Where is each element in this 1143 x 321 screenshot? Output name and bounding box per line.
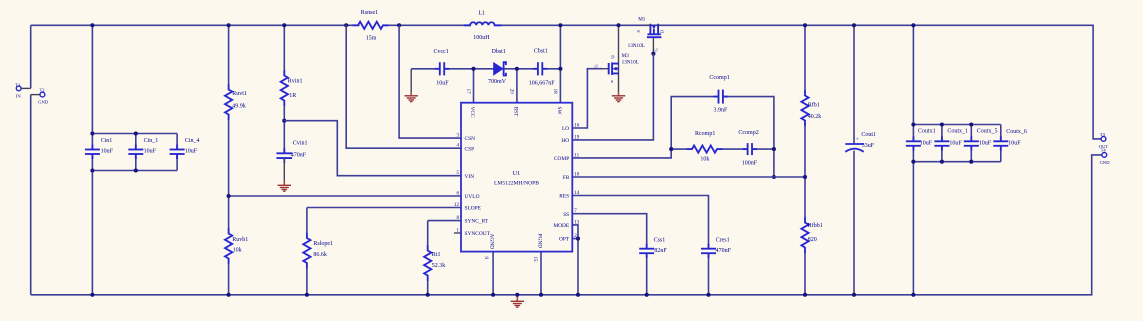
svg-text:SYNC_RT: SYNC_RT — [465, 219, 489, 225]
wire Coutx_5 branch — [970, 125, 972, 162]
junction bottom rail Coutx — [911, 293, 915, 297]
junction VCC — [471, 67, 475, 71]
wire SLOPE pin 12 branch — [307, 208, 461, 295]
svg-text:SS: SS — [563, 212, 569, 218]
svg-text:Ccomp2: Ccomp2 — [738, 130, 758, 136]
svg-text:Coutx_1: Coutx_1 — [947, 128, 968, 134]
junction bottom rail Cin — [90, 293, 94, 297]
svg-text:52.3k: 52.3k — [432, 263, 446, 269]
svg-text:VCC: VCC — [469, 107, 475, 118]
svg-text:CSP: CSP — [465, 146, 475, 152]
svg-text:13: 13 — [574, 220, 580, 225]
junction comp-FB — [772, 175, 776, 179]
wire Cin bank bottom — [92, 170, 177, 172]
svg-text:1R: 1R — [289, 93, 296, 99]
svg-text:15m: 15m — [366, 36, 377, 42]
svg-text:L1: L1 — [478, 11, 485, 17]
svg-text:M1: M1 — [638, 16, 646, 22]
junction top rail Rfb1 — [803, 23, 807, 27]
capacitor Coutx1 — [906, 136, 921, 151]
wire VCC-BST-SW row — [411, 68, 560, 70]
junction CSN node — [397, 23, 401, 27]
wire Cin_1 branch — [135, 134, 137, 171]
wire Coutx_1 branch — [941, 125, 943, 162]
wire BST pin 20 — [516, 69, 518, 103]
svg-text:16: 16 — [574, 123, 580, 128]
svg-text:D: D — [611, 54, 614, 59]
ground main — [511, 295, 524, 307]
resistor Ruvb1 — [225, 228, 232, 264]
terminal T4 GND — [1102, 153, 1107, 158]
resistor Rcomp1 — [687, 146, 723, 153]
svg-text:FB: FB — [563, 175, 570, 181]
junction — [940, 122, 944, 126]
junction — [134, 131, 138, 135]
svg-text:T2: T2 — [40, 87, 46, 92]
svg-text:700mV: 700mV — [488, 79, 507, 85]
resistor Rsnse1 — [353, 22, 389, 29]
svg-text:Rfb1: Rfb1 — [808, 102, 820, 109]
svg-text:49.9k: 49.9k — [232, 103, 246, 109]
wire RES pin 14 to Cres1 — [572, 196, 708, 295]
svg-text:19: 19 — [574, 135, 580, 140]
svg-text:LO: LO — [562, 126, 569, 132]
resistor Rvin1 — [281, 70, 288, 106]
wire T2 stub — [31, 94, 40, 96]
wire LO pin 16 to M3 gate — [572, 69, 602, 128]
svg-text:Rfbb1: Rfbb1 — [808, 222, 823, 229]
svg-text:13N10L: 13N10L — [628, 43, 645, 49]
junction bottom Rslope1 — [305, 293, 309, 297]
wire Cin bank top — [92, 133, 177, 135]
svg-text:Css1: Css1 — [654, 237, 666, 243]
svg-text:SLOPE: SLOPE — [465, 206, 482, 212]
svg-text:10uF: 10uF — [920, 141, 933, 147]
ground Cvin1 — [278, 181, 291, 191]
junction UVLO node — [227, 194, 231, 198]
svg-text:LM5122MH/NOPB: LM5122MH/NOPB — [494, 181, 539, 187]
op-amp U1 LM5122 controller — [461, 103, 572, 252]
svg-text:3.9nF: 3.9nF — [714, 108, 729, 114]
terminal T3 OUT — [1101, 137, 1106, 142]
svg-text:10k: 10k — [700, 157, 709, 163]
capacitor Cbst1 — [533, 62, 547, 75]
svg-text:SYNCOUT: SYNCOUT — [465, 231, 491, 237]
svg-text:GND: GND — [38, 100, 49, 105]
svg-text:106,667nF: 106,667nF — [529, 80, 556, 86]
svg-text:17: 17 — [465, 89, 470, 95]
wire UVLO to pin 6 — [229, 195, 461, 197]
junction top rail Ruvt1 — [227, 23, 231, 27]
capacitor Coutx_5 — [964, 136, 979, 151]
junction bottom Css1 — [645, 293, 649, 297]
inductor L1 — [464, 22, 502, 25]
svg-text:11: 11 — [574, 153, 579, 158]
wire Coutx1 branch — [912, 25, 914, 295]
svg-text:T3: T3 — [1100, 132, 1106, 137]
svg-text:14: 14 — [574, 191, 580, 196]
capacitor Coutx_6 — [993, 136, 1008, 151]
svg-text:10uF: 10uF — [1008, 141, 1021, 147]
svg-text:VIN: VIN — [465, 174, 475, 180]
svg-text:470nF: 470nF — [716, 248, 732, 254]
svg-text:Cin_1: Cin_1 — [144, 138, 159, 144]
capacitor Cin1 — [85, 145, 100, 160]
wire feedback divider branch — [804, 25, 806, 295]
svg-text:Ruvb1: Ruvb1 — [232, 237, 248, 243]
junction — [940, 160, 944, 164]
svg-text:T1: T1 — [15, 83, 21, 88]
svg-text:Cbst1: Cbst1 — [534, 49, 548, 55]
diode Dbst1 — [493, 62, 506, 76]
wire Coutx bank top — [913, 124, 1000, 126]
junction FB node — [803, 175, 807, 179]
svg-text:Rt1: Rt1 — [432, 252, 441, 258]
junction — [911, 160, 915, 164]
svg-text:HO: HO — [561, 138, 569, 144]
svg-text:Cin_4: Cin_4 — [185, 138, 200, 144]
terminal T1 IN — [16, 86, 21, 91]
junction SW-Cbst — [558, 67, 562, 71]
svg-text:13N10L: 13N10L — [622, 60, 639, 66]
capacitor Css1 — [639, 244, 654, 259]
svg-text:BST: BST — [512, 107, 518, 118]
wire SW pin 18 — [559, 25, 561, 102]
svg-text:10uF: 10uF — [979, 141, 992, 147]
svg-text:MODE: MODE — [553, 223, 570, 229]
svg-text:40.2k: 40.2k — [808, 114, 822, 120]
wire SYNCOUT stub — [454, 232, 461, 234]
svg-text:Cvcc1: Cvcc1 — [434, 49, 449, 55]
junction MODE-OPT — [576, 237, 580, 241]
junction main ground — [515, 293, 519, 297]
resistor Rslope1 — [303, 233, 310, 269]
svg-text:U1: U1 — [513, 170, 521, 177]
wire Coutx_6 branch — [1000, 125, 1002, 162]
svg-text:12: 12 — [454, 203, 460, 208]
wire MODE-OPT to ground — [572, 225, 578, 295]
svg-text:Ccomp1: Ccomp1 — [709, 75, 729, 81]
junction AGND — [491, 293, 495, 297]
svg-text:Coutx_5: Coutx_5 — [977, 128, 998, 134]
wire SYNC_RT pin 8 branch — [428, 221, 461, 295]
wire VIN/SW/VOUT top rail — [31, 25, 1101, 139]
junction — [969, 160, 973, 164]
svg-text:SW: SW — [556, 107, 562, 116]
svg-text:10uF: 10uF — [101, 149, 114, 155]
svg-text:10uF: 10uF — [185, 149, 198, 155]
junction bottom rail Ruvb1 — [227, 293, 231, 297]
junction — [969, 122, 973, 126]
junction bottom Rt1 — [426, 293, 430, 297]
wire Rvin branch — [283, 25, 285, 153]
capacitor Coutx_1 — [934, 136, 949, 151]
svg-text:33uF: 33uF — [862, 143, 875, 149]
junction comp right — [772, 147, 776, 151]
wire GND bottom rail — [31, 155, 1102, 295]
svg-text:Cvin1: Cvin1 — [293, 141, 308, 147]
wire left input drop — [30, 25, 32, 295]
junction Cin top — [90, 131, 94, 135]
wire Cvin1 to ground — [283, 158, 285, 181]
ground M3 source — [612, 92, 625, 102]
wire PGND pin 15 — [540, 252, 542, 295]
capacitor Cout1 polarized — [845, 25, 863, 295]
transistor M3 low-side — [602, 25, 619, 91]
wire FB pin 10 — [572, 176, 805, 178]
svg-text:10k: 10k — [233, 248, 242, 254]
svg-text:Rcomp1: Rcomp1 — [695, 131, 715, 137]
junction top rail Cout1 — [852, 23, 856, 27]
svg-text:86.6k: 86.6k — [313, 252, 327, 258]
wire AGND pin 9 — [492, 252, 494, 295]
junction Cin bottom — [90, 168, 94, 172]
junction SW rail M3 — [616, 23, 620, 27]
svg-text:15: 15 — [532, 257, 537, 263]
svg-text:18: 18 — [552, 89, 557, 95]
wire Cin1 branch — [91, 25, 93, 295]
svg-text:+: + — [856, 137, 859, 143]
svg-text:Dbst1: Dbst1 — [492, 49, 506, 55]
wire SS pin 7 to Css1 — [572, 214, 646, 295]
capacitor Cvin1 — [276, 148, 292, 163]
junction top rail Rvin1 — [282, 23, 286, 27]
svg-text:OPT: OPT — [559, 237, 570, 243]
svg-text:RES: RES — [559, 194, 569, 200]
svg-text:M3: M3 — [622, 53, 630, 59]
transistor M1 high-side — [645, 24, 661, 54]
terminal T2 GND — [40, 92, 45, 97]
svg-text:Coutx1: Coutx1 — [918, 128, 936, 134]
wire HO pin 19 to M1 gate — [572, 54, 653, 140]
svg-text:COMP: COMP — [554, 156, 569, 162]
svg-text:Rsnse1: Rsnse1 — [361, 10, 378, 16]
wire UVLO divider branch — [228, 25, 230, 295]
junction BST — [515, 67, 519, 71]
resistor Rfbb1 — [801, 217, 808, 253]
svg-text:470nF: 470nF — [291, 152, 307, 158]
wire CSP to pin 4 — [346, 25, 461, 148]
resistor Ruvt1 — [225, 84, 232, 120]
junction top rail Coutx — [911, 23, 915, 27]
svg-text:Rvin1: Rvin1 — [288, 78, 303, 84]
svg-text:Ruvt1: Ruvt1 — [232, 91, 247, 97]
junction — [134, 168, 138, 172]
svg-text:UVLO: UVLO — [465, 194, 480, 200]
wire CSN to pin 3 — [399, 25, 461, 138]
capacitor Ccomp2 — [743, 143, 757, 155]
svg-text:Cin1: Cin1 — [101, 138, 113, 144]
svg-text:Coutx_6: Coutx_6 — [1006, 129, 1027, 135]
svg-text:Cout1: Cout1 — [861, 132, 876, 138]
svg-text:Rslope1: Rslope1 — [313, 241, 333, 247]
junction bottom OPT — [576, 293, 580, 297]
junction VIN filter node — [282, 119, 286, 123]
junction PGND — [539, 293, 543, 297]
wire Cin_4 branch — [176, 134, 178, 171]
junction SW rail — [558, 23, 562, 27]
wire comp RC branch — [671, 148, 774, 150]
svg-text:10uF: 10uF — [436, 81, 449, 87]
capacitor Ccomp1 — [714, 90, 728, 104]
svg-text:PGND: PGND — [537, 234, 543, 249]
svg-text:10uF: 10uF — [144, 149, 157, 155]
svg-text:100uH: 100uH — [473, 35, 490, 41]
capacitor Cin_1 — [128, 145, 143, 160]
wire COMP to Ccomp1 loop — [572, 97, 774, 177]
wire Cvcc1 ground drop — [410, 69, 412, 92]
junction M1 gate — [651, 52, 655, 56]
svg-text:D: D — [660, 30, 665, 33]
svg-text:GND: GND — [1100, 160, 1111, 165]
wire T1 stub — [21, 87, 31, 89]
svg-text:CSN: CSN — [465, 136, 476, 142]
resistor Rfb1 — [801, 90, 808, 126]
junction CSP node — [344, 23, 348, 27]
svg-text:AGND: AGND — [489, 234, 495, 250]
ground Cvcc1 — [405, 92, 418, 102]
svg-text:10uF: 10uF — [949, 141, 962, 147]
junction top rail Cin — [90, 23, 94, 27]
svg-text:820: 820 — [808, 237, 817, 243]
svg-text:20: 20 — [508, 89, 513, 95]
svg-text:Cres1: Cres1 — [716, 237, 730, 243]
svg-text:100nF: 100nF — [742, 161, 758, 167]
junction bottom rail Rfbb1 — [803, 293, 807, 297]
wire Coutx bank bottom — [913, 161, 1000, 163]
svg-text:T4: T4 — [1101, 147, 1107, 152]
resistor Rt1 — [424, 245, 431, 281]
junction comp left — [669, 147, 673, 151]
junction — [911, 122, 915, 126]
svg-text:10: 10 — [574, 172, 580, 177]
svg-text:IN: IN — [16, 94, 22, 99]
junction bottom rail Cout1 — [852, 293, 856, 297]
svg-text:82nF: 82nF — [654, 248, 667, 254]
wire VIN node to pin 5 — [284, 121, 461, 176]
junction bottom Cres1 — [706, 293, 710, 297]
capacitor Cres1 — [701, 244, 716, 259]
wire VCC pin 17 — [473, 69, 475, 103]
capacitor Cin_4 — [170, 145, 185, 160]
capacitor Cvcc1 — [435, 62, 449, 75]
